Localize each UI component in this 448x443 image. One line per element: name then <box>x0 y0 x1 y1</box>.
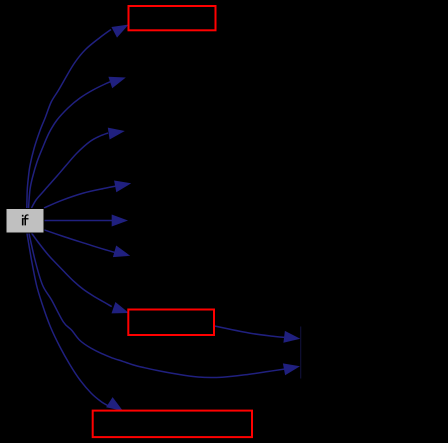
wire edge E2 <box>29 82 112 209</box>
arrowhead E5 <box>112 215 128 227</box>
arrowhead E2 <box>108 77 125 88</box>
node middle rect red <box>128 310 214 336</box>
wire edge E8 if to bottom node <box>27 234 109 407</box>
wire edge E5 <box>44 220 114 222</box>
node if box <box>6 209 44 234</box>
node bottom rect red <box>93 411 252 438</box>
arrowhead E6 <box>113 246 130 258</box>
wire edge E4 <box>44 186 117 208</box>
arrowhead E7 <box>112 302 129 313</box>
wire edge E10 middle node to right <box>215 326 288 338</box>
node if label <box>22 214 29 225</box>
wire edge E1 if to top node <box>27 30 111 209</box>
arrowhead E4 <box>114 181 131 193</box>
arrowhead E10 <box>283 331 300 343</box>
wire edge E7 if to middle node <box>32 233 112 307</box>
arrowhead E9 <box>283 363 300 375</box>
node border faint line right <box>300 327 301 379</box>
wire edge E9 long sweep <box>29 234 285 378</box>
arrowhead E3 <box>108 128 125 140</box>
arrowhead E8 <box>106 397 123 411</box>
arrowhead E1 <box>111 25 128 38</box>
node top rect red <box>129 6 216 30</box>
wire edge E3 <box>32 133 109 208</box>
wire edge E6 <box>44 230 116 253</box>
